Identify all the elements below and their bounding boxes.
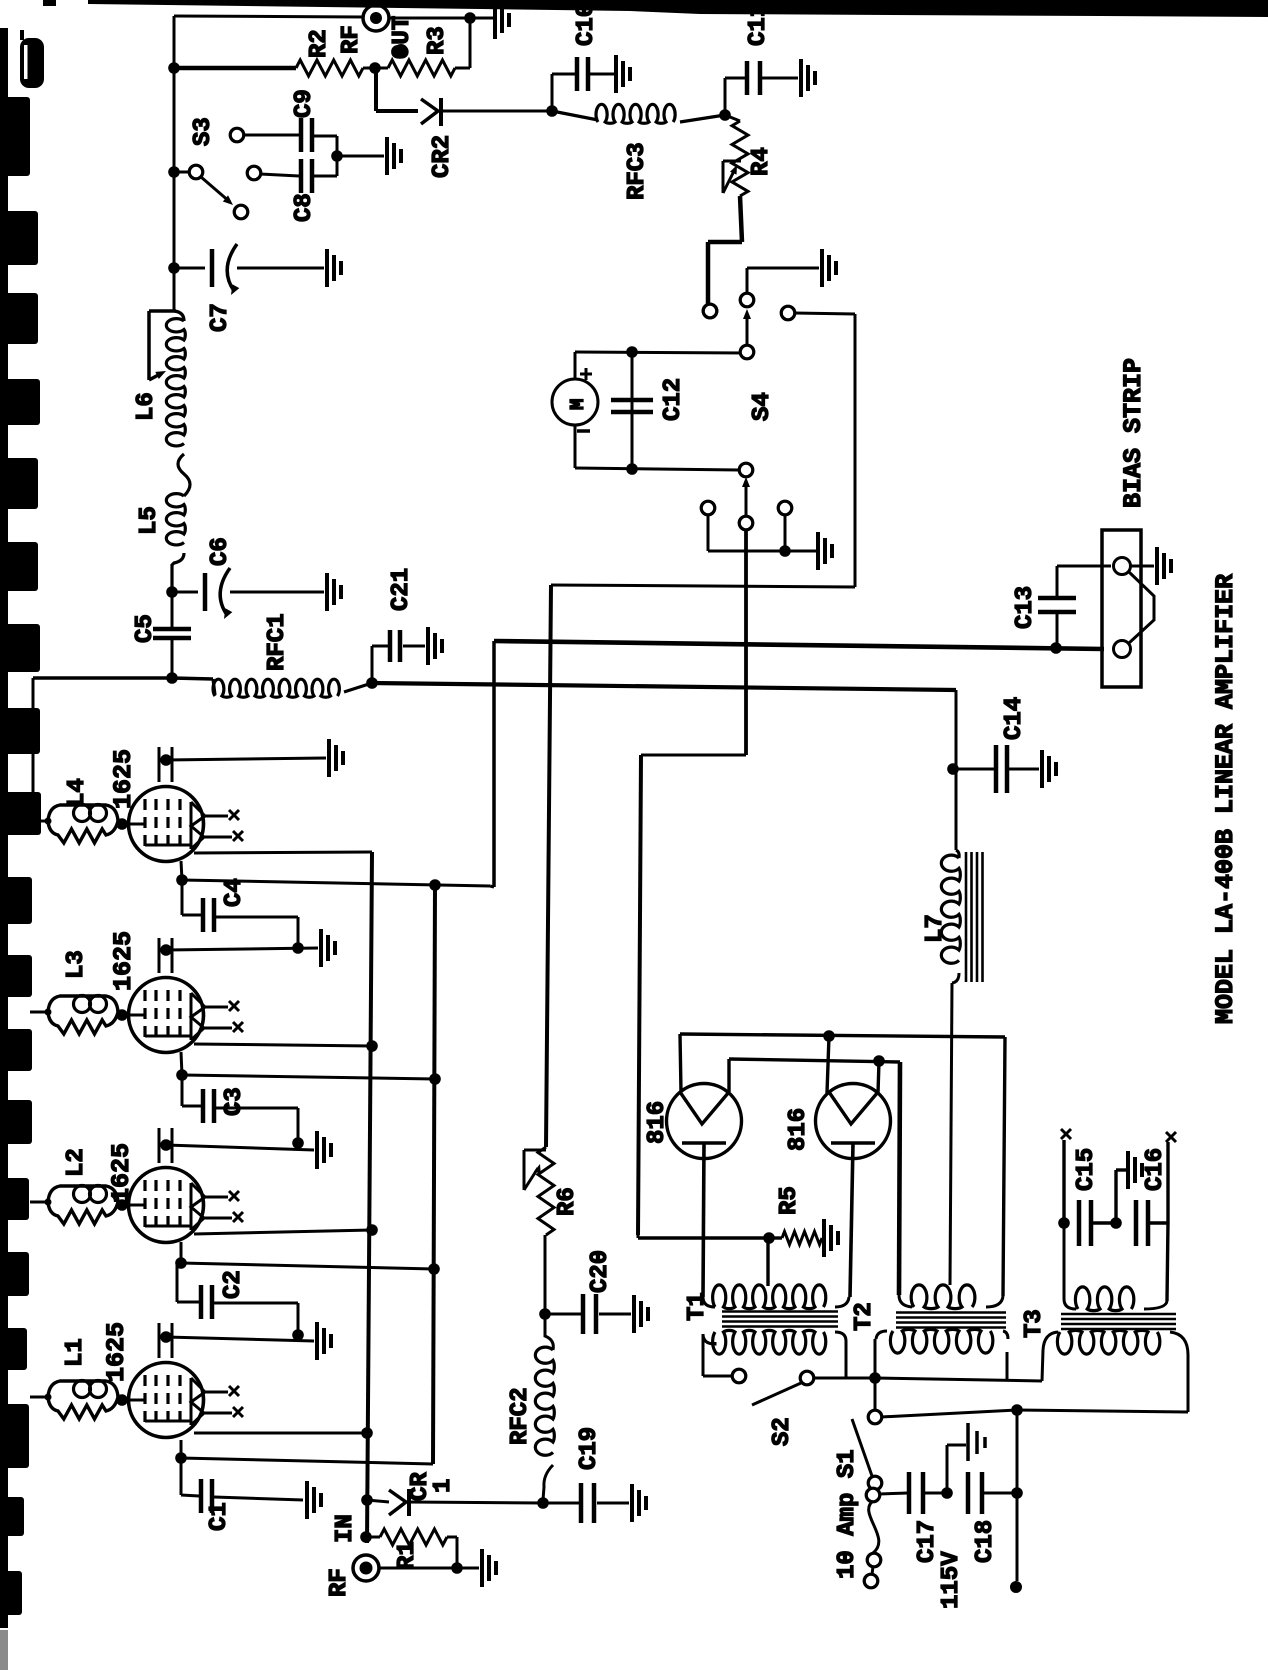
svg-text:816: 816 (644, 1101, 671, 1144)
svg-text:R6: R6 (554, 1187, 581, 1216)
svg-text:10 Amp S1: 10 Amp S1 (834, 1449, 861, 1579)
svg-text:C2: C2 (220, 1270, 247, 1299)
svg-text:RF: RF (338, 25, 365, 54)
svg-text:L1: L1 (62, 1338, 89, 1367)
svg-text:C3: C3 (221, 1087, 248, 1116)
svg-text:1625: 1625 (102, 1322, 131, 1382)
svg-text:RFC3: RFC3 (624, 142, 651, 200)
svg-text:C6: C6 (207, 537, 234, 566)
svg-text:R2: R2 (306, 29, 333, 58)
svg-text:L2: L2 (63, 1148, 90, 1177)
svg-text:RFC1: RFC1 (264, 613, 291, 671)
svg-text:1625: 1625 (107, 1143, 136, 1203)
svg-text:T3: T3 (1021, 1309, 1048, 1338)
svg-text:C14: C14 (1001, 697, 1028, 740)
svg-text:C12: C12 (660, 378, 687, 421)
svg-text:L4: L4 (64, 778, 91, 807)
svg-text:C9: C9 (291, 89, 318, 118)
svg-text:MODEL LA-400B LINEAR AMPLIFIER: MODEL LA-400B LINEAR AMPLIFIER (1211, 574, 1240, 1024)
svg-text:1: 1 (430, 1479, 457, 1493)
svg-text:T2: T2 (851, 1302, 878, 1331)
svg-text:C11: C11 (745, 3, 772, 46)
svg-text:L5: L5 (136, 506, 163, 535)
svg-text:C10: C10 (573, 3, 600, 46)
svg-text:S2: S2 (769, 1417, 796, 1446)
svg-text:816: 816 (785, 1108, 812, 1151)
svg-text:RFC2: RFC2 (507, 1387, 534, 1445)
svg-text:C8: C8 (291, 193, 318, 222)
svg-text:C17: C17 (914, 1520, 941, 1563)
svg-text:IN: IN (332, 1514, 359, 1543)
svg-text:L3: L3 (63, 950, 90, 979)
svg-text:C20: C20 (587, 1250, 614, 1293)
svg-text:C16: C16 (1142, 1148, 1169, 1191)
svg-text:L6: L6 (133, 392, 160, 421)
svg-text:C19: C19 (576, 1427, 603, 1470)
svg-text:R3: R3 (424, 26, 451, 55)
svg-text:M: M (567, 399, 589, 410)
svg-text:C15: C15 (1073, 1148, 1100, 1191)
svg-text:C18: C18 (972, 1520, 999, 1563)
svg-text:S4: S4 (749, 392, 776, 421)
svg-text:RF: RF (326, 1568, 353, 1597)
svg-text:C7: C7 (207, 303, 234, 332)
svg-text:T1: T1 (684, 1292, 711, 1321)
svg-text:CR2: CR2 (429, 135, 456, 178)
svg-text:L7: L7 (922, 914, 949, 943)
svg-text:BIAS STRIP: BIAS STRIP (1119, 358, 1148, 508)
svg-text:R1: R1 (394, 1541, 421, 1570)
svg-text:R4: R4 (748, 147, 775, 176)
svg-text:C13: C13 (1012, 586, 1039, 629)
svg-text:115V: 115V (938, 1551, 965, 1609)
svg-text:R5: R5 (776, 1186, 803, 1215)
svg-text:C1: C1 (206, 1502, 233, 1531)
svg-text:C21: C21 (388, 568, 415, 611)
svg-text:C5: C5 (132, 614, 159, 643)
svg-text:S3: S3 (190, 117, 217, 146)
svg-text:1625: 1625 (109, 931, 138, 991)
svg-text:C4: C4 (221, 878, 248, 907)
svg-text:1625: 1625 (109, 749, 138, 809)
